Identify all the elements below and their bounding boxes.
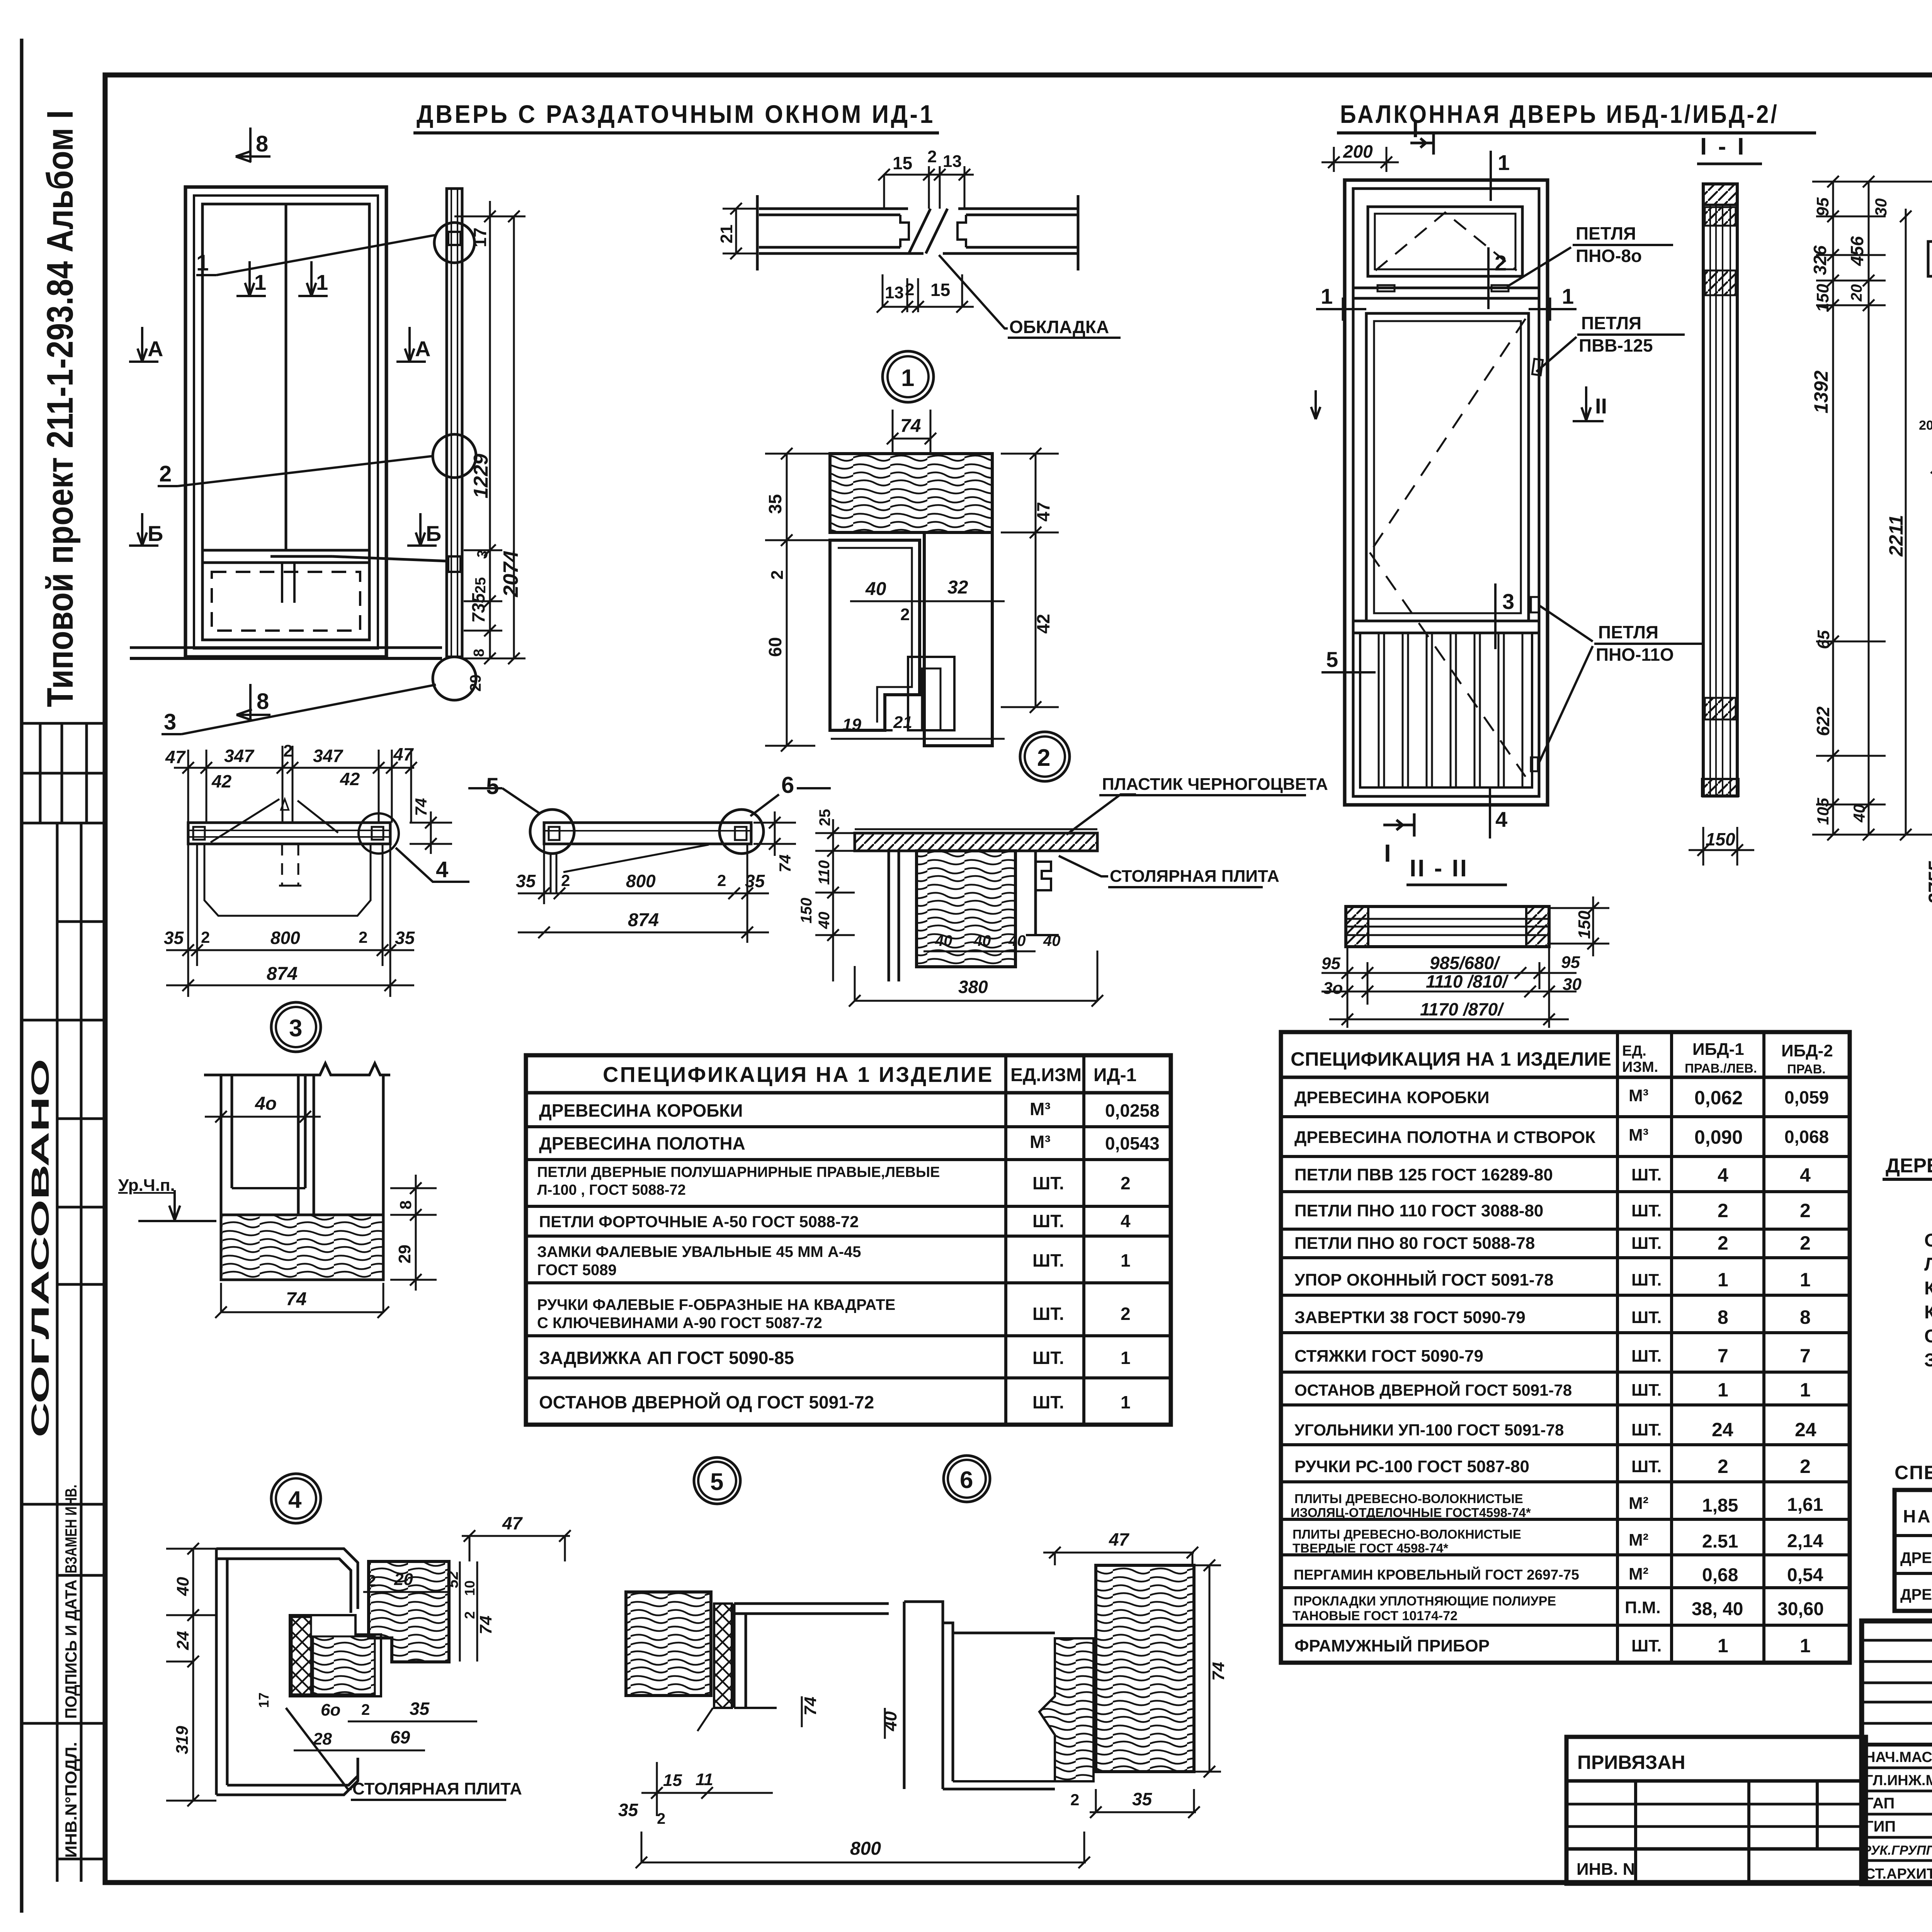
svg-text:ПЕТЛИ ПНО 110 ГОСТ 3088-80: ПЕТЛИ ПНО 110 ГОСТ 3088-80 xyxy=(1294,1201,1543,1220)
svg-text:НАИМЕНОВАНИЕ: НАИМЕНОВАНИЕ xyxy=(1903,1506,1932,1526)
svg-text:СТОЛЯРНАЯ ПЛИТА: СТОЛЯРНАЯ ПЛИТА xyxy=(352,1779,522,1798)
svg-text:13: 13 xyxy=(885,283,904,302)
svg-text:4: 4 xyxy=(1495,807,1507,832)
right frame profile xyxy=(734,1602,889,1605)
svg-text:0,54: 0,54 xyxy=(1787,1565,1823,1585)
svg-text:М³: М³ xyxy=(1629,1126,1648,1145)
svg-text:СОГЛАСОВАНО: СОГЛАСОВАНО xyxy=(26,1059,54,1437)
svg-text:30: 30 xyxy=(1872,198,1890,216)
svg-text:1: 1 xyxy=(1718,1269,1728,1291)
svg-text:Типовой проект 211-1-293.84: Типовой проект 211-1-293.84 Альбом I xyxy=(39,110,81,707)
svg-text:ШТ.: ШТ. xyxy=(1032,1304,1064,1324)
svg-text:35: 35 xyxy=(618,1800,639,1820)
svg-text:1: 1 xyxy=(1718,1635,1728,1656)
svg-text:35: 35 xyxy=(410,1699,430,1719)
svg-text:ТАНОВЫЕ ГОСТ 10174-72: ТАНОВЫЕ ГОСТ 10174-72 xyxy=(1293,1609,1458,1623)
svg-text:35: 35 xyxy=(516,871,536,891)
svg-text:326: 326 xyxy=(1810,245,1830,275)
labels xyxy=(1066,794,1136,835)
serving window dashed panel xyxy=(212,572,360,631)
left board xyxy=(759,207,908,210)
svg-text:2: 2 xyxy=(768,570,787,580)
svg-text:ОСТАНОВ ДВЕРНОЙ ОД ГОСТ 5091-7: ОСТАНОВ ДВЕРНОЙ ОД ГОСТ 5091-72 xyxy=(539,1392,874,1412)
profile drawing xyxy=(1928,240,1932,405)
svg-text:150: 150 xyxy=(1575,910,1594,939)
svg-text:2: 2 xyxy=(1800,1232,1811,1254)
svg-text:32: 32 xyxy=(947,577,968,598)
svg-text:М³: М³ xyxy=(1629,1086,1648,1105)
svg-text:29: 29 xyxy=(395,1245,414,1264)
svg-text:ПНО-11О: ПНО-11О xyxy=(1596,645,1674,665)
svg-text:25: 25 xyxy=(816,809,833,827)
svg-text:35: 35 xyxy=(164,928,184,948)
svg-text:Л-100 , ГОСТ 5088-72: Л-100 , ГОСТ 5088-72 xyxy=(537,1182,686,1198)
sidebar stamp grid upper xyxy=(22,723,105,922)
svg-text:ЛЕН ПО ЧЕРНОВЫМ ЗАГОТОВ-: ЛЕН ПО ЧЕРНОВЫМ ЗАГОТОВ- xyxy=(1924,1254,1932,1275)
mark Б left xyxy=(129,513,158,546)
svg-text:42: 42 xyxy=(211,771,232,791)
svg-text:5: 5 xyxy=(1326,647,1338,672)
svg-text:0,090: 0,090 xyxy=(1694,1126,1743,1148)
transom sill band xyxy=(1353,287,1539,289)
svg-text:ОБКЛАДКА: ОБКЛАДКА xyxy=(1009,317,1109,337)
svg-text:СПЕЦИФИКАЦИЯ НА 1 ИЗДЕЛИЕ: СПЕЦИФИКАЦИЯ НА 1 ИЗДЕЛИЕ xyxy=(1291,1048,1611,1070)
svg-text:40: 40 xyxy=(1850,804,1868,823)
svg-text:ШТ.: ШТ. xyxy=(1631,1308,1662,1327)
svg-text:ШТ.: ШТ. xyxy=(1032,1392,1064,1412)
svg-text:2: 2 xyxy=(1037,745,1050,771)
svg-text:8: 8 xyxy=(471,649,487,657)
svg-text:ПРОКЛАДКИ УПЛОТНЯЮЩИЕ ПОЛИУРЕ: ПРОКЛАДКИ УПЛОТНЯЮЩИЕ ПОЛИУРЕ xyxy=(1294,1594,1556,1609)
svg-text:35: 35 xyxy=(765,494,785,514)
mark 1 left xyxy=(1316,308,1366,310)
svg-text:13: 13 xyxy=(943,152,962,171)
svg-text:2: 2 xyxy=(1718,1456,1728,1477)
svg-text:ШТ.: ШТ. xyxy=(1631,1381,1662,1400)
svg-text:47: 47 xyxy=(1109,1529,1130,1549)
svg-text:РУЧКИ ФАЛЕВЫЕ F-ОБРАЗНЫЕ НА К: РУЧКИ ФАЛЕВЫЕ F-ОБРАЗНЫЕ НА КВАДРАТЕ xyxy=(537,1296,895,1313)
svg-text:1: 1 xyxy=(901,365,914,391)
small wood piece xyxy=(1039,1638,1094,1781)
leader 3 xyxy=(182,685,436,734)
svg-text:1: 1 xyxy=(1121,1250,1131,1270)
svg-text:20: 20 xyxy=(1919,418,1932,433)
svg-text:1: 1 xyxy=(1800,1635,1811,1656)
svg-text:40: 40 xyxy=(865,579,886,599)
svg-text:35: 35 xyxy=(395,928,415,948)
svg-text:А: А xyxy=(148,337,163,361)
svg-text:II: II xyxy=(1595,394,1607,418)
sill lines xyxy=(130,646,442,649)
svg-text:65: 65 xyxy=(1814,630,1833,649)
svg-text:347: 347 xyxy=(313,746,344,766)
svg-text:М³: М³ xyxy=(1030,1099,1051,1119)
svg-text:БАЛКОННАЯ ДВЕРЬ ИБД-1/ИБД-2/: БАЛКОННАЯ ДВЕРЬ ИБД-1/ИБД-2/ xyxy=(1340,100,1779,128)
svg-text:4: 4 xyxy=(436,857,448,882)
frame lines left xyxy=(903,1602,906,1789)
DOOR ИД-1 SIDE VIEW STRIP xyxy=(270,189,476,700)
svg-text:ГОСТ 5089: ГОСТ 5089 xyxy=(537,1262,617,1279)
svg-text:1: 1 xyxy=(196,250,209,276)
svg-text:ШТ.: ШТ. xyxy=(1631,1234,1662,1253)
svg-text:ПЕТЛИ ФОРТОЧНЫЕ А-50 ГОСТ 5088: ПЕТЛИ ФОРТОЧНЫЕ А-50 ГОСТ 5088-72 xyxy=(539,1213,859,1231)
svg-text:15: 15 xyxy=(663,1771,682,1790)
svg-text:1: 1 xyxy=(1121,1348,1131,1368)
svg-text:ПЕРГАМИН КРОВЕЛЬНЫЙ ГОСТ 2697-: ПЕРГАМИН КРОВЕЛЬНЫЙ ГОСТ 2697-75 xyxy=(1294,1566,1579,1583)
svg-text:380: 380 xyxy=(958,977,988,997)
svg-text:69: 69 xyxy=(390,1727,410,1747)
svg-text:0,059: 0,059 xyxy=(1784,1087,1829,1107)
svg-text:ПЕТЛЯ: ПЕТЛЯ xyxy=(1581,313,1641,333)
label ОБКЛАДКА xyxy=(939,255,1008,328)
svg-text:ОСТАНОВ ДВЕРНОЙ ГОСТ 5091-78: ОСТАНОВ ДВЕРНОЙ ГОСТ 5091-78 xyxy=(1294,1381,1572,1399)
svg-text:74: 74 xyxy=(476,1616,495,1634)
dim chains right of I-I xyxy=(1812,182,1932,835)
svg-text:8: 8 xyxy=(256,131,268,156)
mark II right xyxy=(1573,386,1604,421)
svg-text:1: 1 xyxy=(1321,284,1333,308)
svg-text:150: 150 xyxy=(798,898,815,923)
svg-text:1392: 1392 xyxy=(1810,371,1832,413)
svg-text:3: 3 xyxy=(1502,589,1514,614)
title: ДВЕРЬ С РАЗДАТОЧНЫМ ОКНОМ ИД-1 xyxy=(413,100,939,133)
planks xyxy=(1379,633,1522,787)
svg-text:ШТ.: ШТ. xyxy=(1631,1201,1662,1220)
door frame middle xyxy=(194,196,378,648)
svg-text:3о: 3о xyxy=(1323,979,1343,998)
circled node 2 xyxy=(1020,732,1070,781)
svg-text:21: 21 xyxy=(717,224,736,243)
svg-text:ПЕТЛЯ: ПЕТЛЯ xyxy=(1598,622,1658,642)
svg-text:СТ.АРХИТ.: СТ.АРХИТ. xyxy=(1865,1866,1932,1882)
svg-text:15: 15 xyxy=(893,153,912,173)
leaf split line xyxy=(285,204,287,550)
big wood square xyxy=(1096,1565,1194,1772)
svg-text:ФРАМУЖНЫЙ ПРИБОР: ФРАМУЖНЫЙ ПРИБОР xyxy=(1294,1636,1490,1655)
node 5 dims xyxy=(641,1696,1086,1862)
svg-text:П.М.: П.М. xyxy=(1625,1598,1661,1617)
svg-text:ШТ.: ШТ. xyxy=(1631,1165,1662,1184)
svg-text:ВЗАМЕН ИНВ.: ВЗАМЕН ИНВ. xyxy=(62,1485,80,1573)
svg-text:ПЕТЛИ ПВВ 125 ГОСТ 16289-80: ПЕТЛИ ПВВ 125 ГОСТ 16289-80 xyxy=(1294,1165,1553,1184)
svg-text:0,0258: 0,0258 xyxy=(1105,1100,1160,1121)
bottom dim 74 xyxy=(221,1283,383,1312)
svg-text:2: 2 xyxy=(283,742,293,760)
svg-text:74: 74 xyxy=(412,798,430,816)
main glass leaf xyxy=(1366,313,1529,621)
svg-text:1: 1 xyxy=(1498,150,1510,175)
svg-text:105: 105 xyxy=(1814,798,1832,825)
svg-text:10: 10 xyxy=(462,1580,478,1596)
mark 1 top xyxy=(1490,151,1492,201)
svg-text:74: 74 xyxy=(1209,1662,1228,1681)
svg-text:ЕД.: ЕД. xyxy=(1622,1043,1646,1059)
svg-text:СПЕЦИФИКАЦИЯ НА 1 ИЗДЕЛИЕ: СПЕЦИФИКАЦИЯ НА 1 ИЗДЕЛИЕ xyxy=(603,1062,993,1087)
svg-text:150: 150 xyxy=(1706,829,1735,849)
svg-text:42: 42 xyxy=(1033,614,1053,634)
svg-text:ПЕТЛИ ДВЕРНЫЕ ПОЛУШАРНИРНЫЕ ПР: ПЕТЛИ ДВЕРНЫЕ ПОЛУШАРНИРНЫЕ ПРАВЫЕ,ЛЕВЫЕ xyxy=(537,1164,940,1180)
svg-text:6o: 6o xyxy=(321,1701,340,1719)
svg-text:ДРЕВЕСИНА ПОЛОТНА И СТВОРОК: ДРЕВЕСИНА ПОЛОТНА И СТВОРОК xyxy=(1294,1128,1595,1147)
dim chain right of side strip xyxy=(454,201,526,658)
svg-text:РУЧКИ РС-100 ГОСТ 5087-80: РУЧКИ РС-100 ГОСТ 5087-80 xyxy=(1294,1457,1529,1476)
svg-text:17: 17 xyxy=(470,228,490,247)
svg-text:ПРИВЯЗАН: ПРИВЯЗАН xyxy=(1577,1752,1685,1773)
svg-text:ДЕРЕВЯННОЕ ЗАПОЛНЕНИЕ ПРОДУХОВ: ДЕРЕВЯННОЕ ЗАПОЛНЕНИЕ ПРОДУХОВ xyxy=(1886,1155,1932,1177)
right dims 8 / 29 xyxy=(390,1175,437,1291)
mark 1 right xyxy=(1529,308,1577,310)
svg-text:1: 1 xyxy=(316,270,328,294)
svg-text:2: 2 xyxy=(657,1810,665,1827)
svg-text:2: 2 xyxy=(927,147,937,166)
svg-text:1: 1 xyxy=(254,270,266,294)
svg-text:29: 29 xyxy=(467,675,484,692)
СТОЛЯРНАЯ ПЛИТА label xyxy=(286,1708,352,1789)
svg-text:ПРАВ./ЛЕВ.: ПРАВ./ЛЕВ. xyxy=(1685,1061,1757,1075)
hinge node circles xyxy=(434,223,474,263)
svg-text:УПОР ОКОННЫЙ ГОСТ 5091-78: УПОР ОКОННЫЙ ГОСТ 5091-78 xyxy=(1294,1270,1553,1289)
svg-text:25: 25 xyxy=(473,577,489,594)
svg-text:ЕД.ИЗМ: ЕД.ИЗМ xyxy=(1010,1065,1082,1085)
svg-text:15: 15 xyxy=(930,280,950,300)
crown leader lines xyxy=(211,799,279,842)
door frame member (коробка) xyxy=(216,1549,358,1609)
plank panel xyxy=(1360,633,1532,787)
svg-text:ШТ.: ШТ. xyxy=(1631,1347,1662,1366)
svg-text:2: 2 xyxy=(1121,1304,1131,1324)
svg-text:2: 2 xyxy=(717,871,726,889)
svg-text:800: 800 xyxy=(850,1838,881,1859)
door frame outer xyxy=(185,187,386,657)
wood block xyxy=(221,1215,383,1280)
svg-text:2: 2 xyxy=(367,1571,376,1590)
svg-text:40: 40 xyxy=(935,932,952,949)
svg-text:1,61: 1,61 xyxy=(1787,1495,1823,1515)
svg-text:24: 24 xyxy=(1795,1419,1816,1440)
circled node 6 xyxy=(944,1456,990,1502)
svg-text:ИНВ. N: ИНВ. N xyxy=(1577,1860,1635,1879)
svg-text:5: 5 xyxy=(710,1469,723,1495)
top break line with zigzags xyxy=(204,1063,390,1075)
svg-text:985/680/: 985/680/ xyxy=(1430,953,1500,973)
door frame inner xyxy=(202,204,369,640)
svg-text:II - II: II - II xyxy=(1410,855,1468,882)
svg-text:ПНО-8о: ПНО-8о xyxy=(1576,246,1642,266)
svg-text:ШТ.: ШТ. xyxy=(1032,1250,1064,1270)
svg-text:40: 40 xyxy=(173,1577,192,1596)
svg-text:6: 6 xyxy=(960,1467,973,1493)
svg-text:СПЕЦИФИКАЦИЯ ДРЕВЕСИНЫ ДЛЯ П: СПЕЦИФИКАЦИЯ ДРЕВЕСИНЫ ДЛЯ ПРОДУХОВ xyxy=(1895,1462,1932,1483)
circled node 5 xyxy=(694,1458,740,1504)
svg-text:17: 17 xyxy=(256,1692,272,1708)
svg-text:ДРЕВЕСИНА ЗАГЛУШКИ: ДРЕВЕСИНА ЗАГЛУШКИ xyxy=(1900,1586,1932,1603)
svg-text:I: I xyxy=(1412,117,1418,142)
bottom rail xyxy=(1353,620,1539,622)
mark А left xyxy=(129,327,158,362)
svg-text:ГЛ.ИНЖ.М.: ГЛ.ИНЖ.М. xyxy=(1865,1772,1932,1789)
svg-text:РУК.ГРУПП: РУК.ГРУПП xyxy=(1862,1843,1932,1858)
svg-text:КАМ.: КАМ. xyxy=(1924,1278,1932,1299)
svg-text:30: 30 xyxy=(1563,975,1582,994)
dim 200 top xyxy=(1321,147,1399,172)
svg-text:2: 2 xyxy=(361,1701,370,1718)
svg-text:1: 1 xyxy=(1562,284,1574,308)
svg-text:ПВВ-125: ПВВ-125 xyxy=(1579,335,1653,355)
svg-text:4: 4 xyxy=(1121,1211,1131,1231)
svg-text:47: 47 xyxy=(393,744,414,764)
svg-text:ДВЕРЬ С РАЗДАТОЧНЫМ ОКНОМ ИД-1: ДВЕРЬ С РАЗДАТОЧНЫМ ОКНОМ ИД-1 xyxy=(417,100,935,128)
svg-text:М³: М³ xyxy=(1030,1132,1051,1152)
svg-text:8: 8 xyxy=(1800,1306,1811,1328)
svg-text:5: 5 xyxy=(486,773,499,799)
svg-text:74: 74 xyxy=(776,854,794,872)
svg-text:А: А xyxy=(415,337,430,361)
svg-text:ПЛИТЫ ДРЕВЕСНО-ВОЛОКНИСТЫЕ: ПЛИТЫ ДРЕВЕСНО-ВОЛОКНИСТЫЕ xyxy=(1293,1527,1521,1541)
svg-text:ДРЕВЕСИНА ПОЛОТНА: ДРЕВЕСИНА ПОЛОТНА xyxy=(539,1133,745,1153)
svg-text:0,0543: 0,0543 xyxy=(1105,1133,1160,1153)
svg-text:I: I xyxy=(1384,839,1391,867)
svg-text:КОРОБКУ И ЗАГЛУШКУ ОКРА-: КОРОБКУ И ЗАГЛУШКУ ОКРА- xyxy=(1924,1302,1932,1323)
svg-text:24: 24 xyxy=(173,1631,192,1650)
svg-text:4o: 4o xyxy=(255,1094,277,1114)
svg-text:СТОЛЯРНАЯ ПЛИТА: СТОЛЯРНАЯ ПЛИТА xyxy=(1110,867,1279,886)
svg-text:Ур.Ч.п.: Ур.Ч.п. xyxy=(118,1176,175,1195)
svg-text:1229: 1229 xyxy=(470,454,492,498)
svg-text:1170 /870/: 1170 /870/ xyxy=(1420,999,1504,1019)
transom dashed opening xyxy=(1376,213,1517,270)
sheet left edge line xyxy=(20,39,24,1913)
svg-text:ШТ.: ШТ. xyxy=(1631,1457,1662,1476)
svg-text:ШТ.: ШТ. xyxy=(1032,1173,1064,1193)
svg-text:ПЛИТЫ ДРЕВЕСНО-ВОЛОКНИСТЫЕ: ПЛИТЫ ДРЕВЕСНО-ВОЛОКНИСТЫЕ xyxy=(1294,1492,1523,1506)
svg-text:ОБЪЕМ ДРЕВЕСИНЫ ОПРЕДЕ-: ОБЪЕМ ДРЕВЕСИНЫ ОПРЕДЕ- xyxy=(1924,1230,1932,1251)
middle rebate profile xyxy=(290,1615,381,1696)
node 6 dims xyxy=(885,1553,1221,1812)
svg-text:319: 319 xyxy=(173,1726,192,1754)
svg-text:2: 2 xyxy=(359,928,367,946)
svg-text:НАЧ.МАСТ.: НАЧ.МАСТ. xyxy=(1865,1749,1932,1765)
svg-text:4: 4 xyxy=(1800,1164,1811,1186)
svg-text:20: 20 xyxy=(1848,284,1865,302)
svg-text:ДРЕВЕСИНА КОРОБКИ: ДРЕВЕСИНА КОРОБКИ xyxy=(539,1100,743,1121)
svg-text:0,68: 0,68 xyxy=(1702,1565,1738,1585)
svg-text:20: 20 xyxy=(394,1570,413,1589)
svg-text:ИД-1: ИД-1 xyxy=(1094,1065,1136,1085)
svg-text:150: 150 xyxy=(1813,284,1832,312)
svg-text:2: 2 xyxy=(1800,1456,1811,1477)
svg-text:ИБД-2: ИБД-2 xyxy=(1781,1041,1833,1060)
svg-text:74: 74 xyxy=(801,1697,820,1716)
svg-text:2: 2 xyxy=(1718,1200,1728,1221)
mark 5 left xyxy=(1321,671,1376,673)
mark 3 xyxy=(1494,583,1497,649)
svg-text:30,60: 30,60 xyxy=(1777,1599,1824,1619)
svg-text:40: 40 xyxy=(880,1711,900,1731)
svg-text:40: 40 xyxy=(973,932,991,949)
svg-text:110: 110 xyxy=(816,860,833,885)
svg-text:11: 11 xyxy=(696,1770,713,1789)
mark 1 arrows on leaves xyxy=(236,261,328,296)
svg-text:ШТ.: ШТ. xyxy=(1032,1211,1064,1231)
svg-text:ЗАДВИЖКА АП ГОСТ 5090-85: ЗАДВИЖКА АП ГОСТ 5090-85 xyxy=(539,1348,794,1368)
svg-text:19: 19 xyxy=(842,715,861,734)
leader 2 xyxy=(178,456,434,486)
svg-text:2: 2 xyxy=(462,1611,478,1619)
svg-text:ИЗОЛЯЦ-ОТДЕЛОЧНЫЕ ГОСТ4598-74*: ИЗОЛЯЦ-ОТДЕЛОЧНЫЕ ГОСТ4598-74* xyxy=(1291,1505,1531,1520)
section mark I bottom xyxy=(1383,813,1414,837)
svg-text:ПОДПИСЬ И ДАТА: ПОДПИСЬ И ДАТА xyxy=(62,1580,80,1719)
svg-text:95: 95 xyxy=(1561,953,1580,972)
dim 40 xyxy=(205,1116,321,1118)
circled node 1 xyxy=(883,351,934,402)
svg-text:2: 2 xyxy=(1121,1173,1131,1193)
svg-text:74: 74 xyxy=(286,1289,306,1310)
А-А bottom dims xyxy=(166,844,414,997)
svg-text:8: 8 xyxy=(396,1201,415,1209)
svg-text:ЗА 2 РАЗА: ЗА 2 РАЗА xyxy=(1924,1350,1932,1371)
svg-text:874: 874 xyxy=(628,910,659,930)
svg-text:2: 2 xyxy=(905,280,914,299)
svg-text:2.51: 2.51 xyxy=(1702,1531,1738,1552)
svg-text:СИТЬ МАСЛЯНОЙ КРАСКОЙ: СИТЬ МАСЛЯНОЙ КРАСКОЙ xyxy=(1924,1325,1932,1347)
svg-text:74: 74 xyxy=(900,416,921,436)
circled node 3 xyxy=(271,1002,321,1052)
svg-text:4: 4 xyxy=(288,1486,302,1513)
verticals xyxy=(220,1075,223,1215)
svg-text:I - I: I - I xyxy=(1700,133,1747,160)
dim 150 below strip xyxy=(1689,827,1754,866)
svg-text:ПЕТЛИ ПНО 80 ГОСТ 5088-78: ПЕТЛИ ПНО 80 ГОСТ 5088-78 xyxy=(1294,1234,1535,1253)
dims above xyxy=(884,166,974,209)
svg-text:735: 735 xyxy=(468,593,488,623)
svg-text:622: 622 xyxy=(1813,706,1833,736)
svg-text:2,14: 2,14 xyxy=(1787,1531,1823,1551)
svg-text:ИЗМ.: ИЗМ. xyxy=(1622,1059,1658,1075)
svg-text:2: 2 xyxy=(1800,1200,1811,1221)
svg-text:200: 200 xyxy=(1343,141,1373,162)
svg-text:Б: Б xyxy=(148,521,163,546)
svg-text:40: 40 xyxy=(1043,932,1061,949)
II-II dims below xyxy=(1321,947,1577,1028)
svg-text:42: 42 xyxy=(340,769,360,789)
dims xyxy=(815,819,1097,1001)
svg-text:1: 1 xyxy=(1800,1269,1811,1291)
svg-text:2755: 2755 xyxy=(1925,861,1932,905)
svg-text:М²: М² xyxy=(1629,1531,1648,1549)
svg-text:24: 24 xyxy=(1712,1419,1733,1440)
svg-text:4: 4 xyxy=(1718,1164,1728,1186)
section mark I top xyxy=(1410,133,1434,155)
svg-text:800: 800 xyxy=(270,928,300,948)
svg-text:7: 7 xyxy=(1718,1345,1728,1367)
svg-text:С КЛЮЧЕВИНАМИ А-90 ГОСТ 5087-7: С КЛЮЧЕВИНАМИ А-90 ГОСТ 5087-72 xyxy=(537,1315,822,1332)
sidebar grid lower xyxy=(22,823,105,1882)
svg-text:ПЛАСТИК ЧЕРНОГОЦВЕТА: ПЛАСТИК ЧЕРНОГОЦВЕТА xyxy=(1102,775,1328,794)
leaf dashed opening xyxy=(1370,319,1526,777)
svg-text:М²: М² xyxy=(1629,1494,1648,1513)
svg-text:1110 /810/: 1110 /810/ xyxy=(1426,971,1509,992)
А-А bar (полка) xyxy=(188,799,390,916)
svg-text:ИБД-1: ИБД-1 xyxy=(1692,1040,1744,1059)
svg-text:ШТ.: ШТ. xyxy=(1631,1636,1662,1655)
mark Б right xyxy=(407,513,437,546)
svg-text:Б: Б xyxy=(426,521,441,546)
svg-text:2: 2 xyxy=(561,871,570,889)
svg-text:60: 60 xyxy=(765,637,785,657)
svg-text:3: 3 xyxy=(164,709,176,735)
left lintel piece xyxy=(1928,241,1932,315)
svg-text:СТЯЖКИ ГОСТ 5090-79: СТЯЖКИ ГОСТ 5090-79 xyxy=(1294,1347,1483,1366)
